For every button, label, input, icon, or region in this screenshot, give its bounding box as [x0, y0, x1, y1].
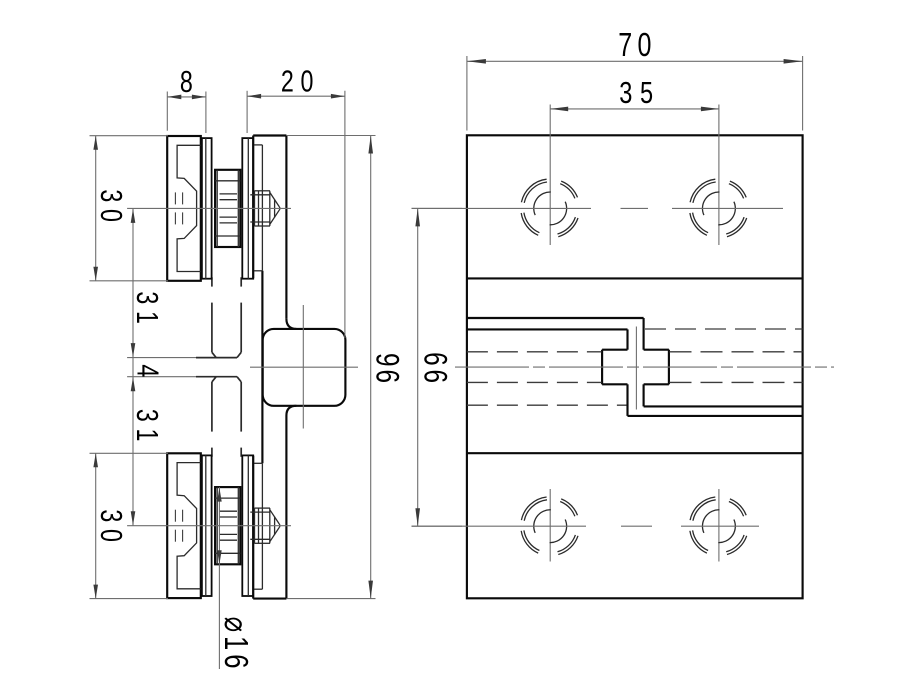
disc hidden line [182, 530, 184, 542]
hole counterbore arc [558, 217, 576, 234]
hole counterbore arc [558, 535, 576, 552]
dim dia16 arrow up [217, 488, 222, 502]
screw face line [269, 508, 271, 543]
svg-text:66: 66 [416, 352, 452, 387]
hidden glass top left [467, 351, 602, 353]
dim 30 bot arrow up [93, 453, 98, 467]
screw thread line [250, 511, 270, 513]
pin left edge upper [626, 329, 628, 349]
screw body line [254, 191, 256, 226]
dim 35 arrow left [550, 107, 568, 112]
body notch top tick lower [253, 270, 262, 272]
dim 30 top arrow down [93, 267, 98, 281]
dim 8 line [167, 96, 206, 98]
chamfer lower-right [237, 377, 241, 382]
pin bar bottom left [602, 383, 627, 385]
dim 70 arrow left [467, 59, 486, 64]
sleeve bore line top [215, 497, 240, 499]
hole counterbore arc [690, 179, 715, 202]
dim 31 upper line [132, 208, 134, 357]
disc hidden line [182, 212, 184, 224]
hole vertical centerline [718, 489, 720, 562]
screw thread line [250, 194, 270, 196]
hole inner arc upper [534, 510, 551, 533]
hole counterbore arc [561, 499, 577, 515]
hole inner arc upper [702, 192, 719, 215]
glass edge right lower seg1 [240, 382, 242, 432]
svg-text:35: 35 [619, 75, 660, 110]
hidden line right upper [645, 328, 803, 330]
washer right inner line [247, 138, 249, 279]
slot arm top edge [196, 357, 237, 359]
hole counterbore arc [693, 500, 716, 521]
glass edge left lower seg2 [211, 448, 213, 457]
svg-text:31: 31 [130, 409, 165, 448]
disc inner contour [177, 463, 201, 589]
left view body right edge lower [285, 416, 287, 599]
hole inner arc lower [718, 202, 735, 225]
hole inner arc lower [550, 202, 567, 225]
dim 30 bot line [95, 453, 97, 598]
sleeve bore line top [215, 180, 240, 182]
hole counterbore arc [558, 536, 578, 555]
body notch bottom tick lower [253, 588, 262, 590]
dim 30 top ext upper [90, 135, 169, 137]
disc hidden line [174, 530, 176, 542]
washer left outline [202, 455, 212, 596]
sleeve thread line [220, 510, 238, 512]
washer left inner line [205, 455, 207, 596]
screw thread line [255, 507, 271, 509]
screw body line [258, 191, 260, 226]
top holes centerline seg2 [672, 207, 783, 209]
screw cone chamfer [274, 199, 276, 217]
hole counterbore arc [727, 218, 747, 237]
dim 4 line [132, 358, 134, 377]
chamfer lower-left [212, 377, 216, 382]
disc hidden line [174, 510, 176, 522]
dim 66 ext lower [412, 525, 463, 527]
dim 66 arrow down [415, 508, 420, 526]
dim 8 extension left [166, 92, 168, 131]
svg-text:30: 30 [94, 509, 129, 548]
bottom holes centerline seg2 [681, 525, 759, 527]
glass edge right upper seg1 [240, 277, 242, 286]
middle centerline [455, 366, 834, 368]
screw thread line [255, 542, 271, 544]
hidden line left lower [467, 404, 627, 406]
screw cone upper [270, 192, 279, 206]
pin left edge lower [626, 384, 628, 416]
fillet body-knob top [286, 319, 296, 329]
hole counterbore arc [730, 181, 746, 197]
fillet body-knob bottom [286, 406, 296, 416]
screw thread line [255, 190, 271, 192]
hole counterbore arc [727, 536, 747, 555]
hole counterbore arc [561, 181, 577, 197]
disc hidden line [174, 192, 176, 204]
washer right outline [242, 455, 253, 596]
screw cone tip [278, 207, 281, 211]
dim 8 extension right [205, 92, 207, 134]
hole counterbore arc [730, 499, 746, 515]
dim dia16 arrow down [217, 550, 222, 564]
disc inner contour [177, 145, 201, 271]
glass edge right upper seg2 [240, 303, 242, 353]
screw cone tip [278, 524, 281, 528]
pin bar right edge [668, 350, 670, 385]
hole counterbore arc [690, 531, 707, 553]
assembly axis centerline [127, 207, 291, 209]
sleeve outline [215, 487, 240, 564]
svg-text:⌀16: ⌀16 [217, 617, 254, 673]
sleeve thread line [220, 216, 238, 218]
dim 66 arrow up [415, 208, 420, 226]
body notch bottom inner line [261, 463, 263, 589]
hole counterbore arc [560, 502, 575, 517]
right view top section line [467, 277, 803, 279]
pin bar top left [602, 349, 627, 351]
sleeve thread line [220, 533, 238, 535]
screw cone lower [270, 528, 279, 542]
slot top inner line [467, 328, 628, 330]
hole vertical centerline [549, 105, 551, 246]
hole counterbore arc [521, 531, 538, 553]
sleeve thread line [220, 539, 238, 541]
hole inner arc upper [534, 192, 551, 215]
bottom holes centerline dash [621, 525, 652, 527]
hole counterbore arc [726, 217, 744, 234]
sleeve inner right [237, 487, 239, 564]
chamfer upper-left [212, 352, 216, 357]
screw body line [258, 508, 260, 543]
sleeve inner left [216, 487, 218, 564]
bottom holes centerline seg1 [412, 525, 587, 527]
dim 35 line [550, 108, 719, 110]
right view bottom section line [467, 452, 803, 454]
svg-text:4: 4 [130, 364, 165, 377]
dim 30 bot ext lower [90, 598, 169, 600]
pin right edge lower [643, 384, 645, 406]
body mid-section left edge [261, 271, 263, 464]
disc hidden line [182, 192, 184, 204]
disc hidden line [174, 212, 176, 224]
hole counterbore arc [690, 497, 715, 520]
dim 70 line [467, 60, 803, 62]
hole counterbore arc [521, 179, 546, 202]
left view body right edge upper [285, 136, 287, 319]
dim 30 top line [95, 136, 97, 281]
dim 31 lower line [132, 377, 134, 526]
sleeve inner left [216, 170, 218, 247]
dim 66 line [417, 208, 419, 526]
hole vertical centerline [718, 105, 720, 246]
assembly axis centerline [127, 525, 291, 527]
dim 30 top arrow up [93, 136, 98, 150]
pin bar top right [644, 349, 669, 351]
washer right outline [242, 138, 253, 279]
top holes centerline dash [621, 207, 649, 209]
dim 31 upper arrow up [131, 209, 136, 223]
dim 30 bot arrow down [93, 585, 98, 599]
hole inner arc lower [718, 520, 735, 543]
hole counterbore arc [524, 500, 547, 521]
pin right edge upper [643, 318, 645, 350]
screw thread line [250, 221, 270, 223]
dim 96 arrow down [368, 581, 373, 599]
hole counterbore arc [521, 213, 538, 235]
slot arm top edge ext [127, 357, 196, 359]
knob rounded square [263, 329, 346, 406]
left view body top edge [253, 134, 286, 136]
disc hidden line [182, 510, 184, 522]
glass edge left upper seg1 [211, 277, 213, 286]
pin vertical centerline [635, 327, 637, 410]
dim 31 lower arrow down [131, 511, 136, 525]
chamfer upper-right [237, 352, 241, 357]
glass edge left lower seg1 [211, 382, 213, 432]
hole inner arc upper [702, 510, 719, 533]
left view body left edge upper [252, 136, 254, 279]
dim 20 arrow right [331, 94, 345, 99]
body notch top inner line [261, 145, 263, 271]
sleeve thread line [220, 222, 238, 224]
disc outline [167, 136, 201, 281]
dim 35 arrow right [701, 107, 719, 112]
hole counterbore arc [524, 213, 540, 233]
sleeve inner right [237, 170, 239, 247]
left view body bottom edge [253, 598, 286, 600]
glass edge right lower seg2 [240, 448, 242, 457]
slot bottom inner line [644, 405, 803, 407]
screw cone lower [270, 210, 279, 224]
hole counterbore arc [524, 530, 540, 550]
hidden glass bottom right [670, 381, 803, 383]
hole counterbore arc [693, 530, 709, 550]
hole inner arc lower [550, 520, 567, 543]
top holes centerline seg1 [412, 207, 592, 209]
pin bar left edge [601, 350, 603, 385]
hole vertical centerline [549, 489, 551, 562]
svg-text:8: 8 [180, 64, 193, 99]
dim 96 ext upper [286, 135, 375, 137]
hole counterbore arc [726, 535, 744, 552]
dim 20 line [247, 95, 345, 97]
slot arm bottom edge ext [127, 376, 196, 378]
hole counterbore arc [690, 213, 707, 235]
dim 31 lower arrow up [131, 377, 136, 391]
body notch bottom tick upper [253, 462, 262, 464]
right view outline [467, 135, 803, 598]
svg-text:96: 96 [368, 353, 404, 386]
hole counterbore arc [558, 218, 578, 237]
sleeve thread line [220, 193, 238, 195]
left view body left edge lower [252, 456, 254, 599]
dim 20 extension right [344, 91, 346, 338]
dim 31 upper arrow down [131, 343, 136, 357]
hole counterbore arc [693, 182, 716, 203]
sleeve outline [215, 170, 240, 247]
washer right inner line [247, 455, 249, 596]
sleeve thread line [220, 199, 238, 201]
slot bottom outer line [628, 415, 803, 417]
dim dia16 line [218, 487, 220, 669]
screw cone upper [270, 510, 279, 524]
screw thread line [255, 225, 271, 227]
dim 20 extension left [246, 91, 248, 133]
hole counterbore arc [729, 184, 744, 199]
screw cone chamfer [274, 517, 276, 535]
disc outline [167, 453, 201, 598]
washer left outline [202, 138, 212, 279]
glass edge left upper seg2 [211, 303, 213, 353]
svg-text:30: 30 [94, 189, 129, 228]
sleeve bore line bottom [215, 552, 240, 554]
hole counterbore arc [729, 502, 744, 517]
screw face line [269, 191, 271, 226]
hole counterbore arc [521, 497, 546, 520]
knob vertical centerline [302, 305, 304, 429]
hole counterbore arc [524, 182, 547, 203]
screw thread line [250, 538, 270, 540]
dim 8 arrow left [167, 95, 181, 100]
body notch top tick upper [253, 144, 262, 146]
dim 70 arrow right [784, 59, 803, 64]
dim 70 ext right [802, 56, 804, 131]
svg-text:31: 31 [130, 291, 165, 330]
knob horizontal centerline [250, 366, 358, 368]
hidden glass top right [670, 351, 803, 353]
washer left inner line [205, 138, 207, 279]
hole counterbore arc [693, 213, 709, 233]
dim 8 arrow right [192, 95, 206, 100]
sleeve thread line [220, 516, 238, 518]
slot arm bottom edge [196, 376, 237, 378]
dim 96 line [370, 136, 372, 599]
dim 20 arrow left [247, 94, 261, 99]
screw body line [254, 508, 256, 543]
dim 30 top ext lower [90, 280, 169, 282]
pin bar bottom right [644, 383, 669, 385]
hole counterbore arc [560, 184, 575, 199]
svg-text:20: 20 [281, 63, 320, 98]
dim 96 arrow up [368, 136, 373, 154]
dim 96 ext lower [286, 598, 375, 600]
hidden glass bottom left [467, 381, 602, 383]
dim 30 bot ext upper [90, 452, 169, 454]
svg-text:70: 70 [618, 27, 657, 64]
sleeve bore line bottom [215, 235, 240, 237]
slot top outer line [467, 317, 644, 319]
dim 70 ext left [466, 56, 468, 131]
dim 66 ext upper [412, 207, 463, 209]
